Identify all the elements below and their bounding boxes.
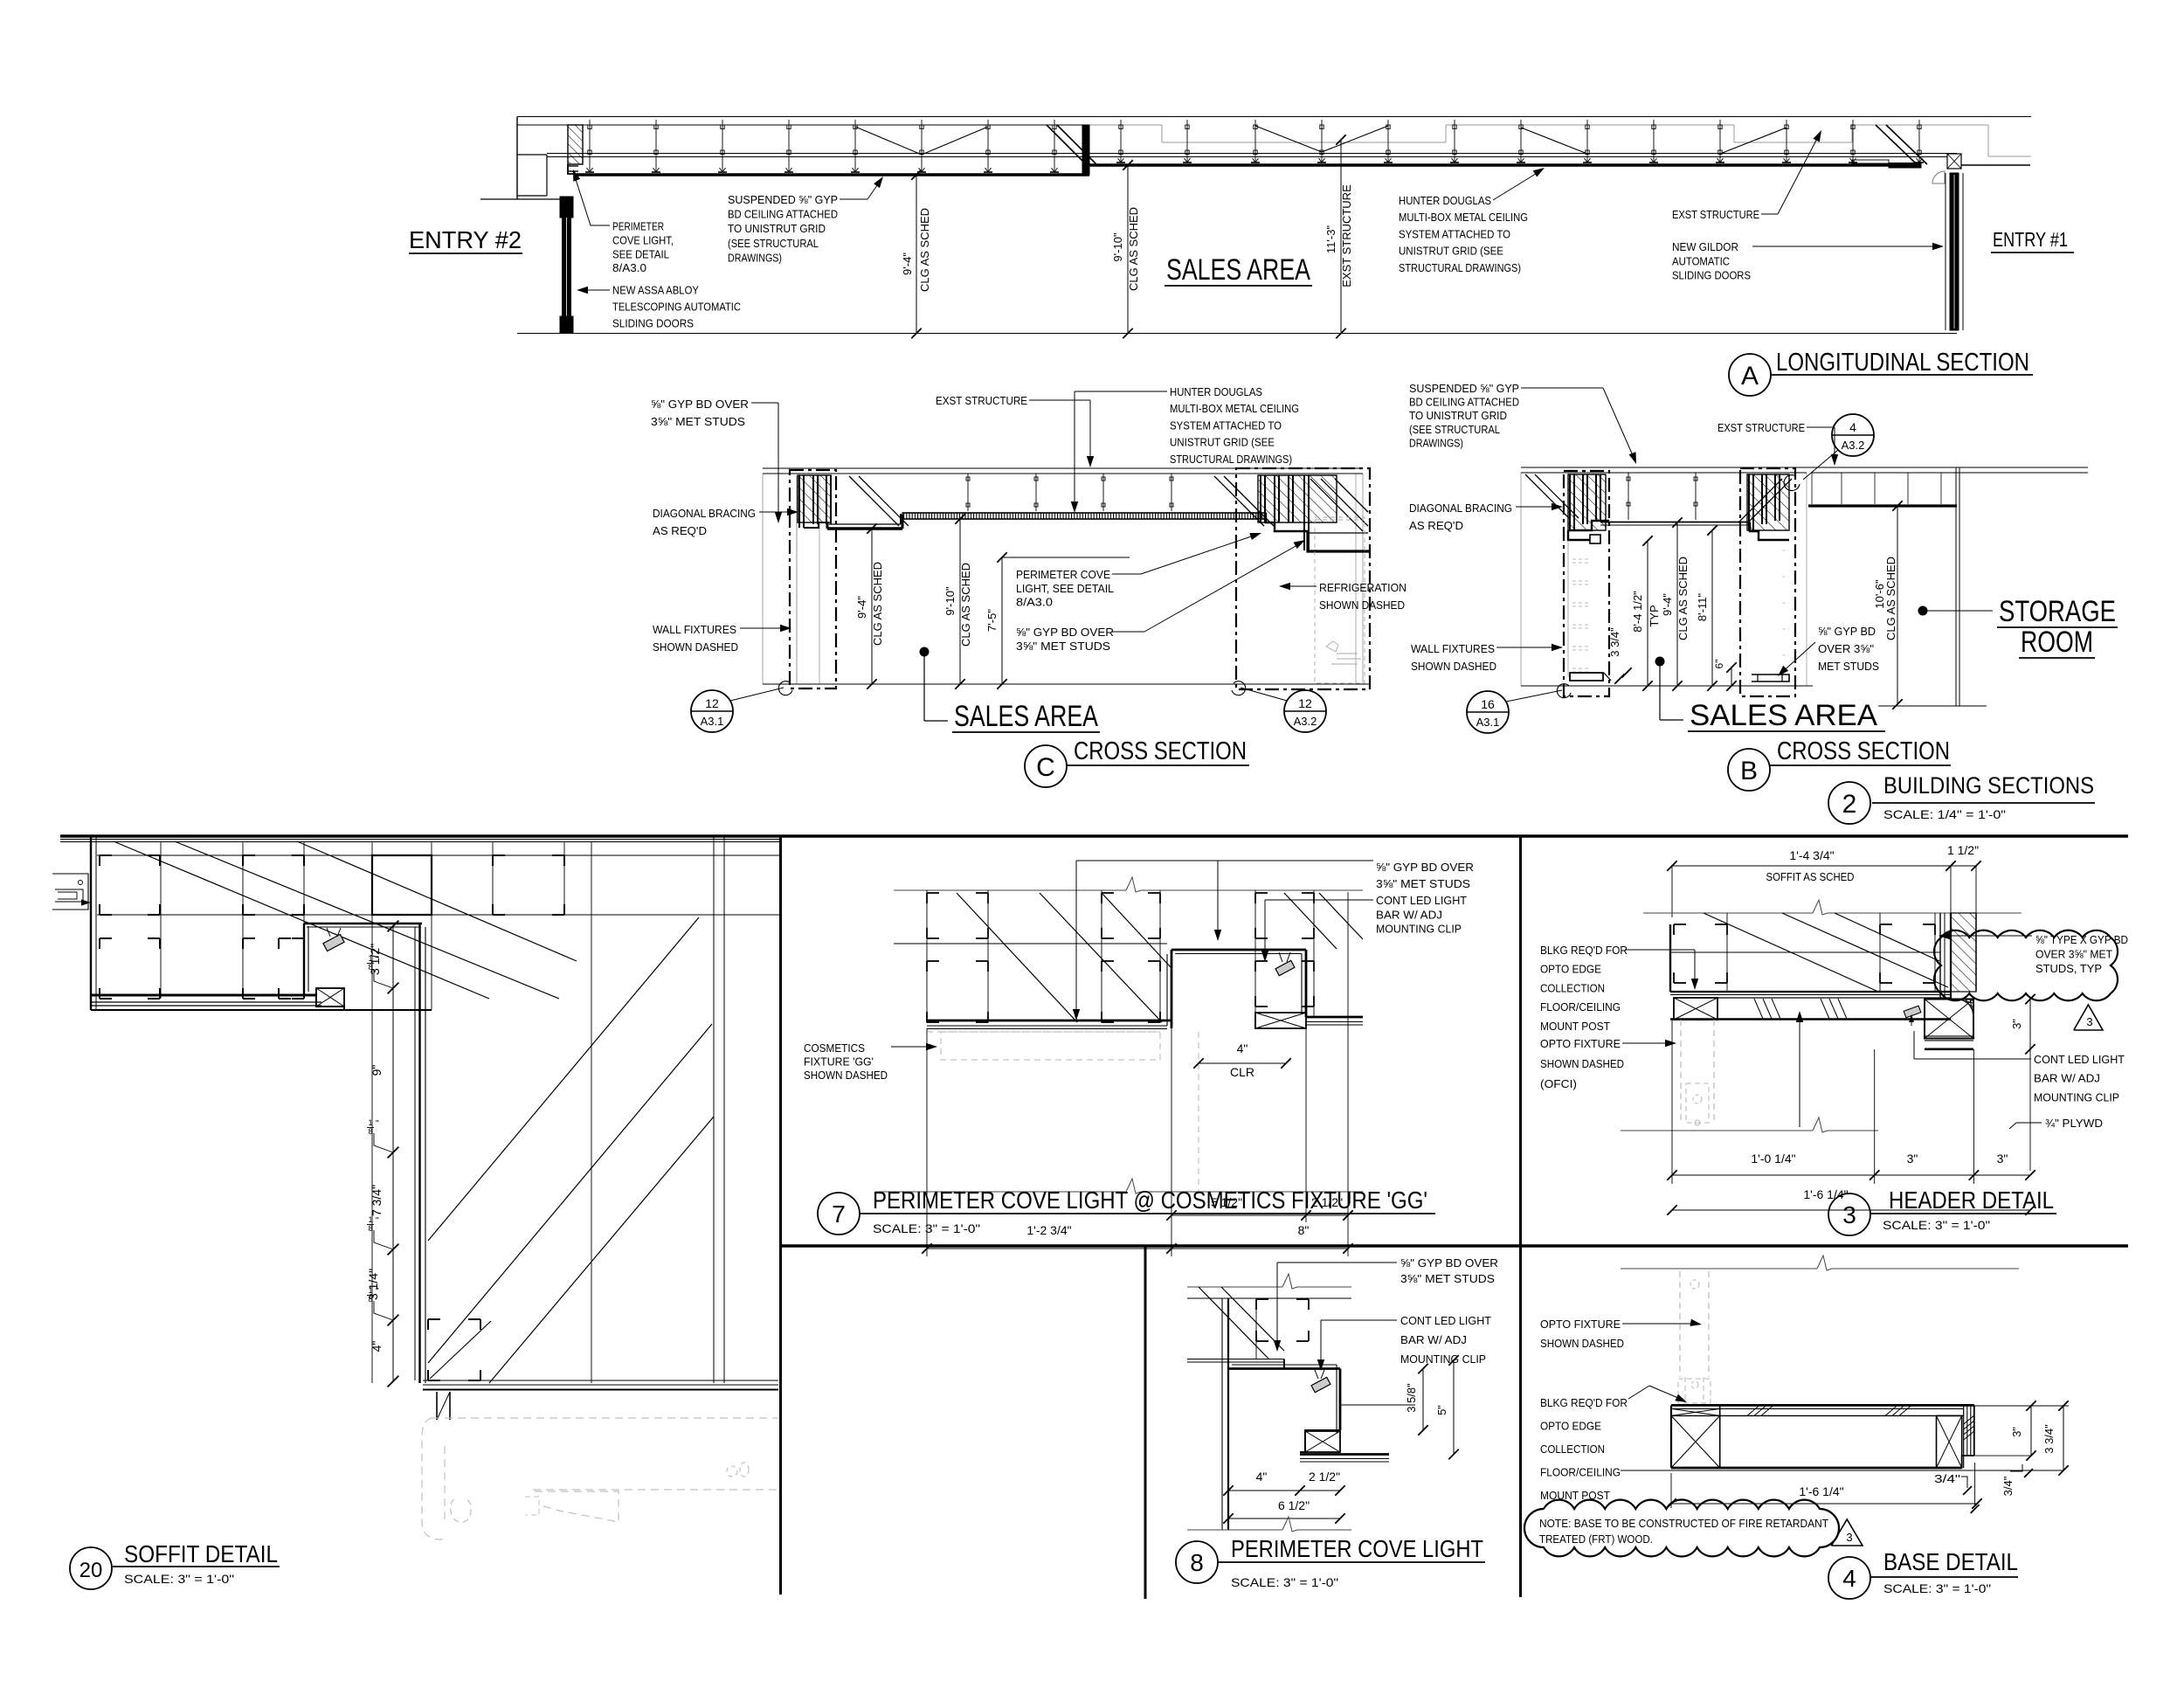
svg-text:STRUCTURAL DRAWINGS): STRUCTURAL DRAWINGS) (1170, 453, 1292, 466)
svg-text:HUNTER DOUGLAS: HUNTER DOUGLAS (1170, 385, 1262, 398)
svg-text:ROOM: ROOM (2021, 626, 2093, 659)
svg-text:3: 3 (1846, 1531, 1852, 1544)
svg-text:CLG AS SCHED: CLG AS SCHED (1884, 557, 1897, 640)
svg-text:1'-4 3/4": 1'-4 3/4" (1789, 848, 1834, 862)
svg-text:TO UNISTRUT GRID: TO UNISTRUT GRID (1409, 409, 1507, 422)
svg-text:SOFFIT DETAIL: SOFFIT DETAIL (124, 1540, 278, 1567)
svg-text:OVER 3⅝" MET: OVER 3⅝" MET (2035, 948, 2112, 961)
svg-text:OPTO EDGE: OPTO EDGE (1540, 963, 1601, 976)
svg-text:EXST STRUCTURE: EXST STRUCTURE (1340, 184, 1353, 287)
svg-text:3 3/4": 3 3/4" (2042, 1424, 2056, 1454)
svg-text:12: 12 (705, 696, 719, 710)
svg-text:SYSTEM ATTACHED TO: SYSTEM ATTACHED TO (1170, 419, 1282, 432)
svg-text:BASE DETAIL: BASE DETAIL (1883, 1548, 2018, 1575)
svg-text:⅝" GYP BD OVER: ⅝" GYP BD OVER (1376, 861, 1474, 874)
svg-text:MOUNTING CLIP: MOUNTING CLIP (1376, 923, 1462, 936)
svg-text:SALES AREA: SALES AREA (1166, 253, 1310, 287)
svg-text:TYP: TYP (1648, 605, 1661, 626)
svg-text:NEW GILDOR: NEW GILDOR (1672, 240, 1738, 253)
svg-text:SCALE: 3" = 1'-0": SCALE: 3" = 1'-0" (1883, 1218, 1990, 1232)
svg-text:EXST STRUCTURE: EXST STRUCTURE (1672, 208, 1759, 221)
svg-text:SHOWN DASHED: SHOWN DASHED (1319, 598, 1405, 612)
svg-text:20: 20 (79, 1559, 103, 1582)
svg-text:BUILDING SECTIONS: BUILDING SECTIONS (1883, 772, 2094, 799)
svg-text:4": 4" (1256, 1470, 1268, 1484)
svg-text:HUNTER DOUGLAS: HUNTER DOUGLAS (1399, 194, 1491, 207)
svg-text:SHOWN DASHED: SHOWN DASHED (653, 640, 738, 654)
svg-text:SUSPENDED ⅝" GYP: SUSPENDED ⅝" GYP (1409, 382, 1519, 395)
svg-text:SHOWN DASHED: SHOWN DASHED (1540, 1057, 1624, 1070)
svg-text:REFRIGERATION: REFRIGERATION (1319, 581, 1406, 594)
svg-text:SHOWN DASHED: SHOWN DASHED (804, 1069, 888, 1082)
svg-text:PERIMETER: PERIMETER (612, 220, 664, 233)
svg-text:STRUCTURAL DRAWINGS): STRUCTURAL DRAWINGS) (1399, 261, 1521, 274)
svg-text:4": 4" (1237, 1041, 1248, 1055)
svg-text:STORAGE: STORAGE (1999, 595, 2116, 628)
svg-text:MOUNT POST: MOUNT POST (1540, 1020, 1610, 1033)
svg-text:OVER 3⅝": OVER 3⅝" (1818, 642, 1874, 655)
svg-text:SCALE: 3" = 1'-0": SCALE: 3" = 1'-0" (1883, 1581, 1991, 1595)
svg-text:SCALE: 1/4" = 1'-0": SCALE: 1/4" = 1'-0" (1883, 807, 2006, 821)
svg-text:FLOOR/CEILING: FLOOR/CEILING (1540, 1000, 1621, 1013)
svg-text:OPTO FIXTURE: OPTO FIXTURE (1540, 1037, 1621, 1050)
svg-text:6": 6" (1713, 660, 1725, 669)
svg-text:3: 3 (1842, 1201, 1856, 1228)
svg-text:BAR W/ ADJ: BAR W/ ADJ (2034, 1072, 2100, 1085)
svg-text:3: 3 (2086, 1015, 2092, 1028)
svg-text:7'-5": 7'-5" (985, 609, 999, 632)
svg-text:TELESCOPING AUTOMATIC: TELESCOPING AUTOMATIC (612, 301, 741, 314)
svg-text:9'-4": 9'-4" (901, 253, 914, 275)
svg-text:EXST STRUCTURE: EXST STRUCTURE (936, 394, 1027, 407)
svg-text:12: 12 (1298, 696, 1312, 710)
svg-text:COSMETICS: COSMETICS (804, 1041, 865, 1055)
svg-text:SYSTEM ATTACHED TO: SYSTEM ATTACHED TO (1399, 227, 1510, 240)
svg-text:1'-2 3/4": 1'-2 3/4" (1026, 1223, 1071, 1237)
svg-text:CLG AS SCHED: CLG AS SCHED (1676, 557, 1690, 640)
svg-text:2 1/2": 2 1/2" (1309, 1470, 1340, 1484)
svg-text:(SEE STRUCTURAL: (SEE STRUCTURAL (1409, 423, 1500, 436)
svg-text:WALL FIXTURES: WALL FIXTURES (653, 623, 736, 636)
svg-text:SUSPENDED ⅝" GYP: SUSPENDED ⅝" GYP (728, 193, 838, 206)
svg-text:MOUNTING CLIP: MOUNTING CLIP (1400, 1352, 1486, 1366)
svg-text:B: B (1740, 757, 1758, 785)
svg-text:PERIMETER COVE LIGHT: PERIMETER COVE LIGHT (1231, 1535, 1483, 1562)
svg-text:9'-10": 9'-10" (1111, 232, 1124, 262)
svg-text:A3.1: A3.1 (701, 715, 724, 728)
svg-text:6 1/2": 6 1/2" (1278, 1498, 1310, 1512)
svg-text:BAR W/ ADJ: BAR W/ ADJ (1376, 908, 1442, 921)
svg-text:3 5/8": 3 5/8" (1405, 1383, 1418, 1413)
svg-text:MULTI-BOX METAL CEILING: MULTI-BOX METAL CEILING (1170, 402, 1299, 415)
svg-text:SHOWN DASHED: SHOWN DASHED (1540, 1337, 1624, 1350)
svg-text:CLG AS SCHED: CLG AS SCHED (1127, 207, 1140, 291)
svg-text:3⅝" MET STUDS: 3⅝" MET STUDS (1376, 877, 1470, 890)
svg-text:DIAGONAL BRACING: DIAGONAL BRACING (653, 507, 756, 520)
svg-text:UNISTRUT GRID (SEE: UNISTRUT GRID (SEE (1170, 436, 1275, 449)
svg-text:FLOOR/CEILING: FLOOR/CEILING (1540, 1466, 1621, 1479)
svg-text:1 1/2": 1 1/2" (1947, 843, 1979, 857)
svg-text:8: 8 (368, 1127, 372, 1136)
svg-text:BAR W/ ADJ: BAR W/ ADJ (1400, 1333, 1467, 1346)
svg-text:COLLECTION: COLLECTION (1540, 981, 1605, 994)
svg-text:CROSS SECTION: CROSS SECTION (1777, 737, 1950, 765)
svg-text:CROSS SECTION: CROSS SECTION (1074, 737, 1247, 765)
svg-text:TREATED (FRT) WOOD.: TREATED (FRT) WOOD. (1539, 1532, 1653, 1546)
svg-text:DRAWINGS): DRAWINGS) (1409, 436, 1463, 449)
svg-text:3 1/4": 3 1/4" (366, 1269, 380, 1300)
svg-text:BD CEILING ATTACHED: BD CEILING ATTACHED (728, 208, 838, 221)
svg-text:3": 3" (2010, 1427, 2023, 1437)
svg-text:SCALE: 3" = 1'-0": SCALE: 3" = 1'-0" (1231, 1575, 1338, 1589)
svg-text:9'-10": 9'-10" (943, 586, 957, 616)
svg-text:LIGHT, SEE DETAIL: LIGHT, SEE DETAIL (1016, 582, 1114, 595)
svg-text:SHOWN DASHED: SHOWN DASHED (1411, 660, 1496, 673)
svg-text:": " (376, 1119, 379, 1129)
svg-text:NOTE: BASE TO BE CONSTRUCTED: NOTE: BASE TO BE CONSTRUCTED OF FIRE RET… (1539, 1517, 1828, 1530)
svg-text:MOUNTING CLIP: MOUNTING CLIP (2034, 1090, 2119, 1103)
svg-text:STUDS, TYP: STUDS, TYP (2035, 962, 2102, 975)
svg-text:DIAGONAL BRACING: DIAGONAL BRACING (1409, 502, 1512, 515)
svg-text:A: A (1741, 362, 1759, 391)
svg-text:CLG AS SCHED: CLG AS SCHED (918, 208, 931, 292)
svg-text:AS REQ'D: AS REQ'D (1409, 519, 1463, 532)
svg-text:⅝" GYP BD OVER: ⅝" GYP BD OVER (651, 398, 749, 411)
svg-text:AUTOMATIC: AUTOMATIC (1672, 254, 1730, 267)
svg-text:CONT LED LIGHT: CONT LED LIGHT (1376, 894, 1467, 907)
svg-text:4: 4 (1842, 1565, 1856, 1592)
svg-text:SCALE: 3" = 1'-0": SCALE: 3" = 1'-0" (873, 1221, 980, 1235)
svg-text:ENTRY #1: ENTRY #1 (1993, 228, 2068, 251)
svg-text:CONT LED LIGHT: CONT LED LIGHT (1400, 1314, 1491, 1327)
svg-text:COVE LIGHT,: COVE LIGHT, (612, 234, 674, 247)
svg-text:WALL FIXTURES: WALL FIXTURES (1411, 642, 1495, 655)
svg-text:SOFFIT AS SCHED: SOFFIT AS SCHED (1766, 870, 1855, 883)
svg-text:⅝" GYP BD: ⅝" GYP BD (1818, 625, 1876, 638)
svg-text:3⅝" MET STUDS: 3⅝" MET STUDS (1400, 1272, 1495, 1285)
svg-text:SALES AREA: SALES AREA (954, 700, 1098, 733)
svg-text:1: 1 (368, 1118, 372, 1127)
svg-text:BLKG REQ'D FOR: BLKG REQ'D FOR (1540, 944, 1628, 957)
svg-text:7: 7 (832, 1200, 846, 1228)
svg-text:FIXTURE 'GG': FIXTURE 'GG' (804, 1055, 874, 1069)
svg-text:PERIMETER COVE LIGHT @ COSMETI: PERIMETER COVE LIGHT @ COSMETICS FIXTURE… (873, 1186, 1427, 1214)
svg-text:MOUNT POST: MOUNT POST (1540, 1489, 1610, 1502)
svg-text:AS REQ'D: AS REQ'D (653, 524, 707, 537)
svg-text:3/4": 3/4" (1934, 1472, 1961, 1485)
svg-text:A3.1: A3.1 (1476, 716, 1500, 729)
svg-text:LONGITUDINAL SECTION: LONGITUDINAL SECTION (1776, 349, 2029, 377)
svg-text:CLG AS SCHED: CLG AS SCHED (871, 562, 884, 646)
svg-text:C: C (1036, 753, 1055, 782)
svg-text:SCALE: 3" = 1'-0": SCALE: 3" = 1'-0" (124, 1572, 234, 1586)
svg-text:16: 16 (1481, 697, 1495, 711)
svg-text:3⅝" MET STUDS: 3⅝" MET STUDS (651, 415, 745, 428)
svg-text:MULTI-BOX METAL CEILING: MULTI-BOX METAL CEILING (1399, 211, 1528, 224)
svg-text:CLR: CLR (1230, 1065, 1254, 1079)
svg-text:": " (376, 1216, 379, 1226)
svg-text:3": 3" (1997, 1152, 2008, 1166)
svg-text:7 3/4": 7 3/4" (370, 1185, 384, 1216)
svg-text:8: 8 (368, 1224, 372, 1233)
svg-text:OPTO EDGE: OPTO EDGE (1540, 1420, 1601, 1433)
svg-text:9": 9" (370, 1065, 384, 1076)
svg-text:HEADER DETAIL: HEADER DETAIL (1889, 1186, 2054, 1214)
svg-text:3⅝" MET STUDS: 3⅝" MET STUDS (1016, 640, 1110, 653)
svg-text:8/A3.0: 8/A3.0 (612, 261, 646, 274)
svg-text:4": 4" (370, 1341, 384, 1352)
svg-text:SEE DETAIL: SEE DETAIL (612, 247, 669, 260)
svg-text:EXST STRUCTURE: EXST STRUCTURE (1717, 421, 1805, 434)
svg-text:OPTO FIXTURE: OPTO FIXTURE (1540, 1318, 1621, 1331)
svg-text:8": 8" (1298, 1223, 1310, 1237)
svg-text:ENTRY #2: ENTRY #2 (409, 226, 522, 253)
svg-text:A3.2: A3.2 (1294, 715, 1317, 728)
svg-text:CONT LED LIGHT: CONT LED LIGHT (2034, 1053, 2125, 1066)
svg-text:BLKG REQ'D FOR: BLKG REQ'D FOR (1540, 1396, 1628, 1409)
svg-text:TO UNISTRUT GRID: TO UNISTRUT GRID (728, 222, 826, 235)
svg-text:3": 3" (2010, 1019, 2023, 1029)
svg-text:3": 3" (1907, 1152, 1918, 1166)
svg-text:2: 2 (1842, 790, 1857, 819)
svg-text:8'-11": 8'-11" (1696, 593, 1709, 622)
svg-text:⅝" TYPE X GYP BD: ⅝" TYPE X GYP BD (2035, 933, 2128, 946)
svg-text:9'-4": 9'-4" (1661, 593, 1674, 616)
svg-text:⅝" GYP BD OVER: ⅝" GYP BD OVER (1400, 1256, 1498, 1269)
svg-text:(OFCI): (OFCI) (1540, 1077, 1577, 1090)
svg-text:1'-0 1/4": 1'-0 1/4" (1751, 1152, 1795, 1166)
svg-text:DRAWINGS): DRAWINGS) (728, 251, 782, 264)
svg-text:1'-6 1/4": 1'-6 1/4" (1799, 1484, 1843, 1498)
svg-text:BD CEILING ATTACHED: BD CEILING ATTACHED (1409, 396, 1519, 409)
svg-text:SALES AREA: SALES AREA (1690, 699, 1877, 732)
svg-text:MET STUDS: MET STUDS (1818, 660, 1879, 673)
svg-text:CLG AS SCHED: CLG AS SCHED (959, 563, 972, 647)
svg-text:9'-4": 9'-4" (855, 596, 868, 619)
svg-text:COLLECTION: COLLECTION (1540, 1442, 1605, 1456)
svg-text:PERIMETER COVE: PERIMETER COVE (1016, 568, 1110, 581)
svg-text:UNISTRUT GRID (SEE: UNISTRUT GRID (SEE (1399, 245, 1503, 258)
svg-text:4: 4 (1849, 420, 1856, 434)
svg-text:¾" PLYWD: ¾" PLYWD (2045, 1117, 2103, 1130)
svg-text:NEW ASSA ABLOY: NEW ASSA ABLOY (612, 284, 699, 297)
svg-text:3 1/2": 3 1/2" (368, 944, 382, 975)
svg-text:5": 5" (1435, 1405, 1448, 1415)
svg-text:A3.2: A3.2 (1842, 439, 1865, 452)
svg-text:SLIDING DOORS: SLIDING DOORS (1672, 269, 1751, 282)
svg-text:11'-3": 11'-3" (1324, 225, 1337, 254)
svg-text:⅝" GYP BD OVER: ⅝" GYP BD OVER (1016, 626, 1114, 639)
svg-text:3/4": 3/4" (2001, 1476, 2015, 1496)
svg-text:SLIDING DOORS: SLIDING DOORS (612, 317, 694, 330)
svg-text:8/A3.0: 8/A3.0 (1016, 596, 1053, 609)
svg-text:8'-4 1/2": 8'-4 1/2" (1631, 591, 1644, 633)
svg-text:8: 8 (1190, 1549, 1204, 1576)
svg-text:3 3/4": 3 3/4" (1608, 627, 1621, 657)
svg-text:(SEE STRUCTURAL: (SEE STRUCTURAL (728, 237, 819, 250)
